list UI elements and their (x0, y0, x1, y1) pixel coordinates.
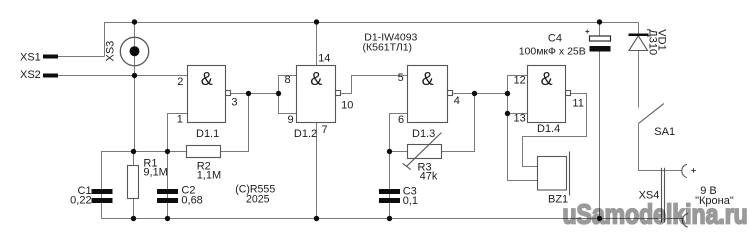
resistor R3 (408, 145, 442, 159)
svg-text:5: 5 (398, 72, 404, 84)
wire D1.4 input bracket (508, 76, 528, 114)
svg-text:&: & (310, 69, 322, 89)
wire XS2 lead to D1.1 pin 2 (58, 75, 188, 77)
XS1 plug bar (43, 55, 58, 59)
connector XS4 pin lines (661, 168, 663, 223)
svg-text:2025: 2025 (246, 193, 270, 205)
wire R3 left lead (390, 151, 408, 153)
svg-text:11: 11 (572, 98, 583, 110)
svg-text:1: 1 (177, 114, 183, 126)
wire SA1 lower to battery clip (639, 124, 683, 171)
resistor R2 (187, 146, 221, 158)
wire pin 7 stub (316, 123, 318, 219)
wire R1 branch (133, 152, 135, 219)
buzzer BZ1 body (538, 157, 567, 191)
wire XS3 inner pin lead (134, 38, 136, 66)
gate D1.3 body (408, 66, 448, 123)
svg-text:0,68: 0,68 (181, 195, 202, 207)
wire VD1 top lead (638, 23, 640, 34)
svg-text:C4: C4 (548, 32, 562, 44)
svg-text:D1.1: D1.1 (196, 128, 219, 140)
capacitor C2 plates (157, 189, 178, 194)
svg-text:D1.3: D1.3 (412, 128, 435, 140)
svg-text:SA1: SA1 (654, 126, 675, 138)
wire D1.3 out to D1.4 (453, 93, 508, 95)
wire to BZ1 lower terminal (508, 114, 538, 181)
wire top rail (105, 23, 639, 57)
buzzer BZ1 piezo plate line (569, 152, 571, 196)
junction C2 node row (165, 149, 170, 154)
SA1 plus sign (691, 168, 695, 172)
svg-text:9,1M: 9,1M (143, 167, 167, 179)
capacitor C1 plates (92, 189, 113, 194)
capacitor C4 positive plate (hollow) (590, 36, 611, 41)
gate D1.4 bubble (566, 91, 571, 96)
svg-text:100мкФ х 25В: 100мкФ х 25В (519, 45, 586, 57)
svg-text:XS2: XS2 (20, 69, 41, 81)
capacitor C4 negative plate (590, 46, 611, 52)
svg-text:XS3: XS3 (105, 41, 117, 62)
svg-text:1,1M: 1,1M (197, 170, 221, 182)
svg-text:(К561ТЛ1): (К561ТЛ1) (363, 42, 413, 54)
svg-text:D1.2: D1.2 (294, 128, 317, 140)
wire D1.1 pin 1 (168, 114, 188, 152)
XS3 center pin (130, 46, 140, 56)
C4 plus sign (585, 30, 589, 34)
wire C3 branch (389, 152, 391, 219)
junction D1.4 input bracket (505, 91, 510, 96)
svg-text:uSamodelkina.ru: uSamodelkina.ru (563, 200, 748, 230)
svg-text:&: & (541, 69, 553, 89)
wire D1.2 out to D1.3 pin 5 (341, 76, 408, 94)
junction C4 top rail (597, 19, 602, 24)
junction pin7 ground (314, 216, 319, 221)
wire R2 feedback (221, 94, 249, 152)
battery clip arc upper (682, 164, 687, 177)
svg-text:XS1: XS1 (20, 52, 41, 64)
wire ground bottom rail (102, 218, 684, 220)
svg-text:&: & (201, 69, 213, 89)
junction R3 node (387, 149, 392, 154)
svg-text:9: 9 (288, 114, 294, 126)
svg-text:7: 7 (322, 124, 328, 136)
wire D1.1 output node (231, 93, 279, 95)
svg-text:12: 12 (514, 74, 526, 86)
junction R2 output node (246, 91, 251, 96)
wire VD1 to SA1 (638, 51, 640, 108)
wire D1.4 out to BZ1 upper terminal (523, 94, 587, 167)
junction R1 node row (131, 149, 136, 154)
svg-text:3: 3 (231, 97, 237, 109)
wire pin 14 stub (316, 23, 318, 66)
svg-text:14: 14 (318, 53, 330, 65)
junction C4 ground (597, 216, 602, 221)
junction C3 ground (387, 216, 392, 221)
diode VD1 cathode bar (629, 34, 649, 37)
svg-text:6: 6 (398, 114, 404, 126)
junction C2 ground (165, 216, 170, 221)
svg-text:2: 2 (177, 76, 183, 88)
wire C2 branch (167, 152, 169, 219)
gate D1.3 bubble (448, 91, 453, 96)
junction D1.2 input bracket (276, 91, 281, 96)
svg-text:8: 8 (285, 74, 291, 86)
gate D1.1 body (188, 66, 226, 123)
junction pin14 top rail (314, 19, 319, 24)
wire D1.2 input bracket (279, 76, 297, 114)
XS2 plug bar (43, 74, 58, 78)
junction XS2 wire (132, 73, 137, 78)
svg-text:13: 13 (514, 112, 526, 124)
wire R3 right riser (442, 94, 475, 152)
junction XS3 top rail (132, 19, 137, 24)
wire input node row (102, 152, 187, 219)
junction D1.4 pin13 (505, 111, 510, 116)
diode VD1 triangle (629, 36, 648, 51)
wire C4 top lead (599, 23, 601, 37)
wire XS1 lead (58, 56, 105, 58)
junction R3 riser (472, 91, 477, 96)
svg-text:&: & (422, 69, 434, 89)
battery clip arc lower (682, 214, 687, 228)
wire C4 bottom lead (599, 52, 601, 219)
gate D1.2 body (297, 66, 336, 123)
svg-text:0,1: 0,1 (403, 195, 418, 207)
svg-text:47k: 47k (420, 170, 438, 182)
svg-text:Д310: Д310 (646, 29, 658, 55)
svg-text:0,22: 0,22 (70, 195, 91, 207)
junction R1 ground (131, 216, 136, 221)
gate D1.1 bubble (226, 91, 231, 96)
svg-text:10: 10 (341, 100, 353, 112)
svg-text:D1.4: D1.4 (537, 123, 560, 135)
gate D1.4 body (528, 66, 566, 123)
R3 adjust arrow shaft (406, 133, 441, 167)
switch SA1 blade (639, 104, 664, 124)
R3 adjust arrow head (403, 163, 411, 169)
resistor R1 (128, 166, 139, 199)
svg-text:4: 4 (454, 95, 460, 107)
capacitor C3 plates (379, 189, 400, 194)
connector XS3 jack ring (120, 37, 148, 65)
wire XS3 vertical drop (134, 23, 136, 152)
gate D1.2 bubble (336, 91, 341, 96)
wire D1.3 pin 6 (390, 114, 408, 152)
